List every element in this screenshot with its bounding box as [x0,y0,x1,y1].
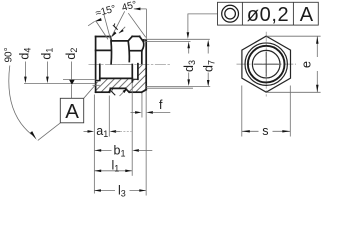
center cross [254,52,279,77]
arrow r top [119,29,124,33]
svg-text:A: A [300,4,314,26]
svg-text:ø0,2: ø0,2 [247,4,289,26]
ext line groove wall [108,96,110,137]
hex edge line upper-right [129,50,141,52]
leader d2 [71,62,73,80]
hex bottom edge left (section outline) [96,91,110,93]
arrow d4 [24,77,27,84]
top edge left of groove [96,36,111,38]
hex bottom edge (section outline) [129,91,141,93]
e dimension [266,35,320,37]
datum box A [60,98,83,123]
tolerance leader arrow [187,32,190,39]
groove floor [111,40,128,42]
s dimension [241,86,243,137]
d3 arrow down [187,79,190,86]
leader r top [119,27,125,34]
ext line thread end [131,83,133,176]
l1 dimension [95,170,132,172]
pilot hole line [132,78,138,80]
chamfer leader 45 [128,13,146,37]
thread bore line [100,77,133,79]
counterbore step edge [99,64,101,80]
leader d1 [46,62,48,78]
bottom groove floor [110,87,125,89]
datum leader [71,85,73,98]
boss right face [145,40,147,90]
centerline dark segment [112,63,131,65]
bottom groove notch right wall [125,88,129,92]
b1 dimension [95,149,112,151]
ext line left face [93,95,95,194]
d3 arrow up [187,42,190,49]
construction line from box corner [38,123,61,140]
a1 dimension [84,130,89,132]
bottom groove notch left wall [109,88,112,92]
bottom corner chamfer (section) [142,90,147,93]
frame cell dividers [242,2,293,25]
construction line from 45 text to groove [112,11,125,36]
hex edge line upper-left [96,49,111,51]
ext line right face [145,91,147,196]
section hatching [96,65,146,92]
thread circle [252,50,280,78]
extension line bottom 1 [146,85,210,87]
wall extension line 15 [104,15,111,41]
top edge right of groove [132,35,139,37]
counterbore opening line [96,79,100,81]
leader curve 15 [96,21,108,40]
vertical extension for 45 [145,9,147,39]
part outline: left face [95,37,97,93]
arc line 45 [134,8,147,10]
groove wall silhouette curve C1 [110,41,113,64]
arrow d1 [46,77,49,84]
svg-text:s: s [262,124,268,138]
leader d4 [24,62,26,78]
45 deg end chamfer [140,37,144,42]
datum triangle A [69,80,75,85]
leader r bottom [120,92,124,96]
d7 arrow down [207,80,210,87]
arc leader 90 [9,66,32,135]
svg-text:90°: 90° [3,47,14,62]
extension line d7 top [144,40,191,42]
d7 arrow up [207,40,210,47]
bottom groove notch cutout [109,88,130,93]
extension line d4 d1 [24,82,95,84]
ext line hex end [141,93,143,118]
extension line short [93,84,100,86]
arrow r bottom [123,88,128,93]
thread end edge [131,65,133,82]
chamfer circle [245,43,287,85]
svg-text:e: e [299,61,313,68]
l3 dimension [94,190,146,192]
svg-text:A: A [65,100,79,123]
tolerance frame leader [188,14,218,33]
bore circle thick [248,46,285,83]
groove left wall (15 deg) [110,37,111,41]
centerline (axis) [89,63,172,65]
arrow 45 [134,8,141,11]
concentricity symbol [222,5,239,22]
boss top edge [144,39,147,41]
centerline vertical [265,32,267,97]
tolerance frame box [218,2,319,25]
extension line d3 top [144,38,210,40]
hexagon [242,36,291,92]
centerline horizontal [237,63,297,65]
extension line d2 [63,79,95,81]
groove wall silhouette curve C2 [128,41,129,62]
f dimension [131,111,136,113]
svg-text:f: f [159,98,163,112]
extension line bottom 2 [146,87,193,89]
chamfer corner curve [142,42,144,51]
d7 dimension line [207,46,209,85]
leader box to part [84,85,96,98]
groove right wall (45 deg) [128,36,132,41]
arrow left 15 [94,18,101,22]
hole bottom edge [137,64,139,80]
arrow 90 [30,131,37,140]
hex end face edge [141,51,143,64]
d3 dimension line [188,48,190,85]
